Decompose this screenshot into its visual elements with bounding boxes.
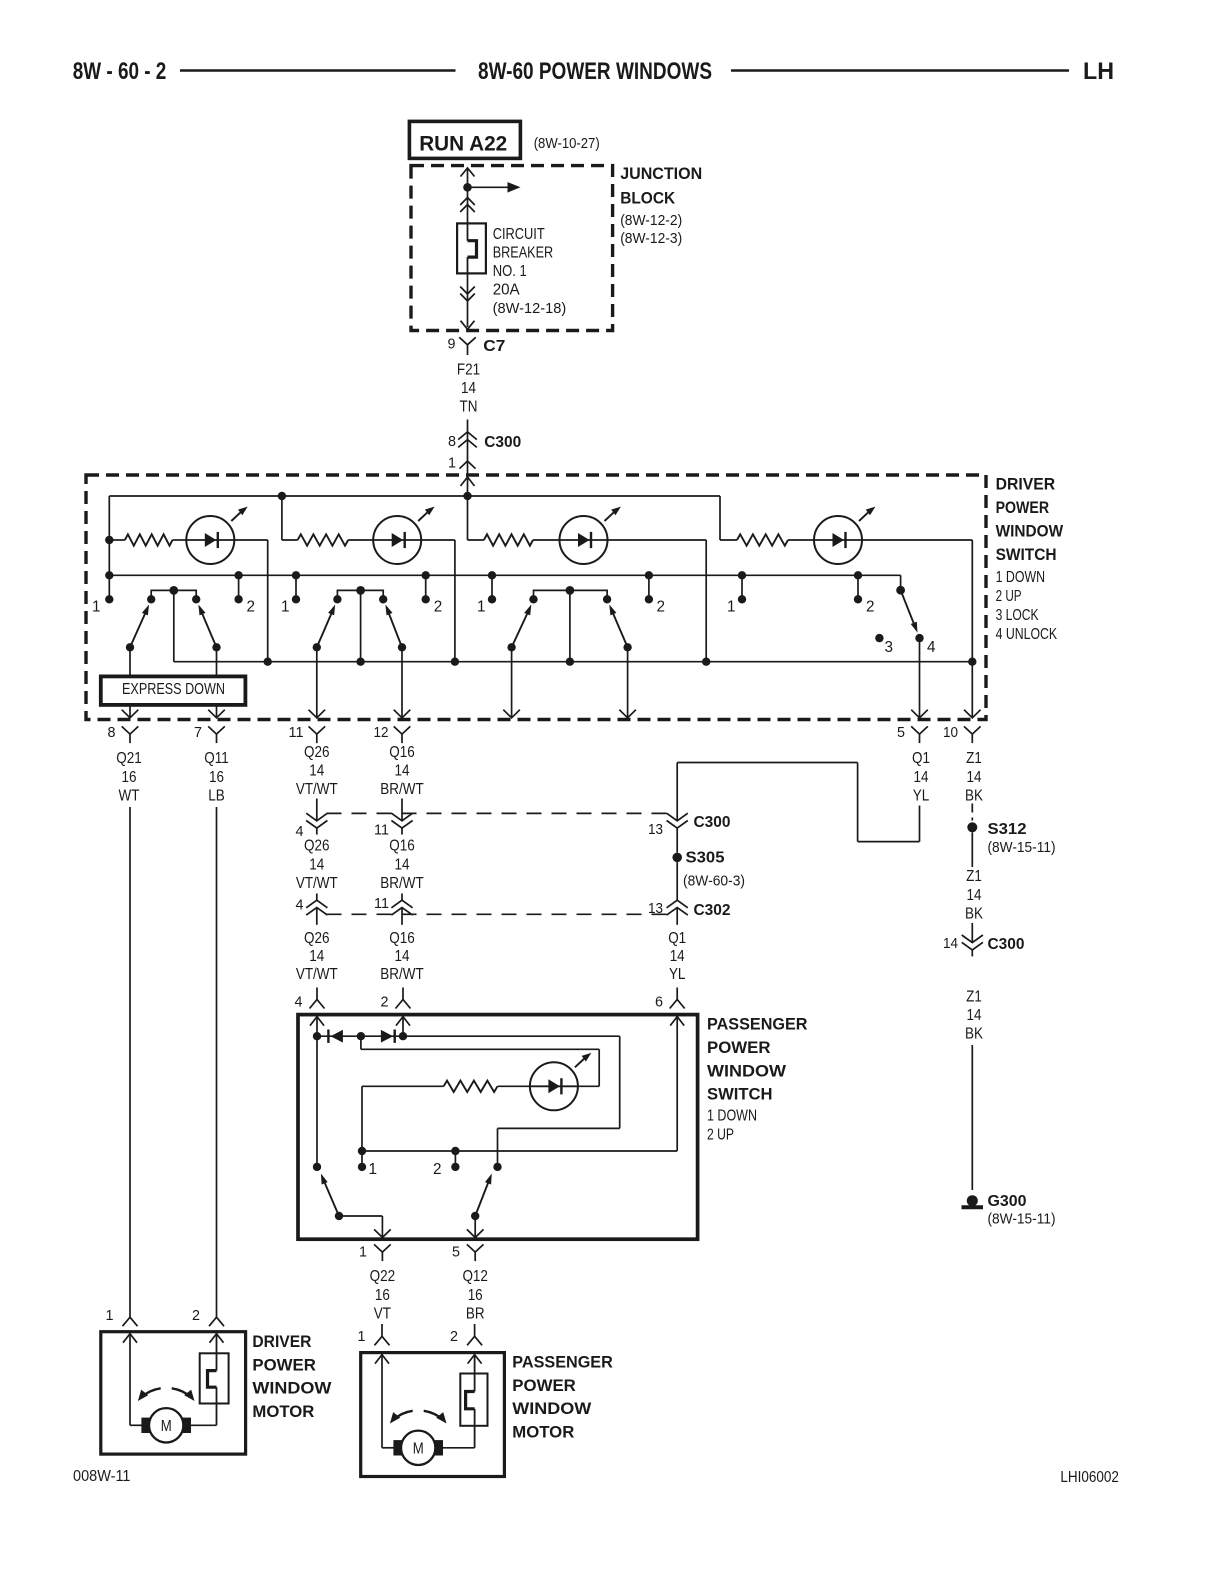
svg-text:VT/WT: VT/WT — [296, 781, 338, 798]
svg-text:1: 1 — [358, 1329, 366, 1345]
svg-text:(8W-15-11): (8W-15-11) — [988, 1212, 1056, 1228]
wire: breaker to C7 — [467, 273, 469, 327]
internal feed bus wire — [109, 495, 720, 497]
svg-text:1: 1 — [727, 599, 736, 616]
svg-text:JUNCTION: JUNCTION — [620, 164, 702, 183]
svg-text:SWITCH: SWITCH — [707, 1085, 773, 1104]
resistor for window LED 2 — [282, 539, 298, 541]
svg-text:PASSENGER: PASSENGER — [512, 1353, 613, 1372]
wire: pin 4 to down contact — [316, 1016, 318, 1167]
diode row wire — [317, 1035, 403, 1037]
svg-text:VT/WT: VT/WT — [296, 966, 338, 983]
circuit breaker no.1 outline — [457, 223, 486, 273]
lock switch pivot stub — [900, 575, 902, 590]
driver power window motor outline — [101, 1332, 246, 1454]
switch 2 common post wire — [360, 590, 362, 661]
entry arrow pin 2 — [396, 1017, 410, 1026]
passenger motor pin 2 — [474, 1324, 476, 1336]
wire: LED 3 to common bus — [608, 539, 707, 541]
passenger LED resistor — [444, 1081, 498, 1092]
svg-text:Q26: Q26 — [304, 930, 330, 947]
svg-text:14: 14 — [914, 769, 929, 786]
svg-text:8: 8 — [448, 434, 456, 450]
wire: feed drop cell 3 — [467, 496, 469, 540]
svg-text:YL: YL — [669, 966, 686, 983]
exit arrow pin 1 — [374, 1229, 391, 1237]
svg-text:M: M — [413, 1441, 424, 1458]
svg-text:WINDOW: WINDOW — [512, 1399, 592, 1418]
fuse source box RUN A22 — [409, 121, 520, 158]
svg-text:7: 7 — [194, 725, 202, 741]
rotation arrows — [141, 1388, 161, 1397]
svg-text:Q26: Q26 — [304, 744, 330, 761]
svg-text:C300: C300 — [694, 814, 731, 831]
header rule left — [180, 69, 456, 72]
splice S305 — [676, 834, 678, 852]
svg-text:14: 14 — [395, 763, 410, 780]
wire: pin1 to motor brush — [381, 1354, 383, 1448]
entry arrow motor pin 2 — [210, 1334, 224, 1343]
switch 1 left blade — [126, 643, 134, 651]
passenger switch pin 2 — [402, 988, 404, 1000]
svg-text:BREAKER: BREAKER — [493, 245, 554, 262]
entry arrow motor pin 1 — [375, 1355, 389, 1364]
lock contact 4 — [915, 634, 923, 642]
svg-text:EXPRESS DOWN: EXPRESS DOWN — [122, 681, 225, 698]
exit arrow at switch edge — [394, 710, 411, 718]
svg-text:POWER: POWER — [252, 1355, 316, 1374]
passenger switch pin 6 — [676, 988, 678, 1000]
svg-text:WT: WT — [119, 788, 140, 805]
connector pin 8 — [122, 726, 139, 734]
svg-text:C300: C300 — [484, 434, 521, 451]
exit arrow at switch edge — [964, 710, 981, 718]
connector pin 10 — [964, 726, 981, 734]
wire: cell 1 feed to contact rail — [108, 540, 110, 575]
resistor for window LED 1 — [109, 539, 125, 541]
driver power window switch dashed outline — [86, 475, 986, 720]
switch 4 terminal 2 (up contact) — [854, 571, 862, 579]
svg-text:SWITCH: SWITCH — [996, 545, 1057, 564]
svg-text:BLOCK: BLOCK — [620, 189, 676, 208]
svg-text:2: 2 — [657, 599, 666, 616]
svg-text:DRIVER: DRIVER — [252, 1332, 311, 1351]
rotation arrows — [393, 1411, 413, 1420]
svg-text:14: 14 — [395, 948, 410, 965]
connector pin 5 — [911, 726, 928, 734]
bus node — [264, 658, 272, 666]
svg-text:3: 3 — [885, 639, 894, 656]
svg-text:Q16: Q16 — [389, 744, 415, 761]
double chevron up on feed wire — [460, 198, 475, 206]
svg-text:Q21: Q21 — [116, 750, 142, 767]
svg-text:14: 14 — [967, 1007, 982, 1024]
svg-text:(8W-12-3): (8W-12-3) — [620, 231, 682, 247]
switch 3 terminal 2 (up contact) — [645, 571, 653, 579]
entry arrow into driver switch — [461, 477, 475, 486]
switch 2 left blade — [313, 643, 321, 651]
exit arrow at junction block edge — [461, 321, 475, 330]
switch 3 left blade — [507, 643, 515, 651]
svg-text:WINDOW: WINDOW — [996, 522, 1064, 541]
svg-text:BK: BK — [965, 788, 984, 805]
driver motor pin 2 — [216, 1308, 218, 1318]
svg-text:C300: C300 — [988, 936, 1025, 953]
svg-text:14: 14 — [670, 948, 685, 965]
svg-text:1: 1 — [92, 599, 101, 616]
svg-text:Q1: Q1 — [668, 930, 686, 947]
svg-text:G300: G300 — [988, 1193, 1027, 1210]
EXPRESS DOWN label box — [101, 676, 246, 705]
svg-text:Q12: Q12 — [462, 1268, 488, 1285]
svg-text:(8W-10-27): (8W-10-27) — [534, 136, 600, 152]
bus node — [451, 658, 459, 666]
svg-text:6: 6 — [655, 995, 663, 1011]
svg-text:11: 11 — [374, 823, 389, 839]
wire: Q11 to driver motor — [216, 807, 218, 1308]
svg-text:14: 14 — [943, 936, 958, 952]
switch 1 terminal 2 (up contact) — [234, 571, 242, 579]
svg-text:POWER: POWER — [707, 1038, 771, 1057]
arrow up to RUN A22 inside junction block — [461, 168, 475, 177]
exit arrow pin 5 — [467, 1229, 484, 1237]
C302 pin 13 chevron — [676, 894, 678, 901]
svg-text:1: 1 — [106, 1308, 114, 1324]
bus node — [702, 658, 710, 666]
exit arrow at switch edge — [911, 710, 928, 718]
svg-text:2: 2 — [192, 1308, 200, 1324]
svg-text:(8W-12-2): (8W-12-2) — [620, 213, 682, 229]
svg-text:1: 1 — [359, 1245, 367, 1261]
svg-text:11: 11 — [289, 725, 304, 741]
svg-text:S305: S305 — [686, 850, 725, 867]
svg-text:DRIVER: DRIVER — [996, 474, 1056, 493]
svg-text:WINDOW: WINDOW — [707, 1061, 787, 1080]
C300 pin 14 chevron — [971, 923, 973, 943]
svg-text:BK: BK — [965, 906, 984, 923]
svg-text:14: 14 — [967, 769, 982, 786]
svg-text:BR/WT: BR/WT — [380, 781, 424, 798]
entry arrow motor pin 1 — [123, 1334, 137, 1343]
node on internal feed bus — [463, 492, 471, 500]
svg-text:8: 8 — [108, 725, 116, 741]
switch 2 terminal 1 (down contact) — [292, 571, 300, 579]
svg-text:008W-11: 008W-11 — [73, 1468, 131, 1485]
driver motor M1 — [141, 1418, 150, 1433]
svg-text:4: 4 — [927, 639, 936, 656]
splice S312 stub — [971, 804, 973, 821]
svg-text:1: 1 — [369, 1161, 378, 1178]
wire: common bus to pin 10 — [971, 662, 973, 718]
passenger motor M2 — [393, 1440, 402, 1455]
double chevron down on wire — [460, 287, 475, 295]
wire: F21 to C300 — [467, 420, 469, 432]
C300 pin 4 chevron — [316, 799, 318, 821]
switch 3 common post wire — [569, 590, 571, 661]
svg-text:4: 4 — [295, 995, 303, 1011]
splice S312 — [967, 822, 977, 832]
bus node — [566, 658, 574, 666]
svg-text:Q1: Q1 — [912, 750, 930, 767]
C302 pin 11 chevron — [401, 894, 403, 901]
entry arrow pin 4 — [310, 1017, 324, 1026]
passenger LED indicator — [530, 1062, 578, 1110]
LED indicator 1 — [186, 516, 234, 564]
passenger left blade — [335, 1212, 343, 1220]
svg-text:Q22: Q22 — [370, 1268, 396, 1285]
svg-text:BR/WT: BR/WT — [380, 875, 424, 892]
switch common bus — [174, 661, 973, 663]
svg-text:5: 5 — [897, 725, 905, 741]
svg-text:16: 16 — [209, 769, 224, 786]
svg-text:2: 2 — [450, 1329, 458, 1345]
svg-text:5: 5 — [452, 1245, 460, 1261]
node diode right — [399, 1032, 407, 1040]
connector C7 pin 9 — [459, 337, 476, 345]
svg-text:12: 12 — [374, 725, 389, 741]
svg-text:9: 9 — [448, 337, 456, 353]
passenger right blade — [471, 1212, 479, 1220]
wire: Q1 jog from pin 5 to C300 pin 13 — [919, 806, 921, 842]
wire: LED 4 to common bus — [862, 539, 972, 541]
wire: feed to circuit breaker — [467, 187, 469, 223]
connector pin 1 of driver switch — [460, 461, 476, 469]
svg-text:C7: C7 — [483, 338, 505, 355]
entry arrow motor pin 2 — [468, 1355, 482, 1364]
wire: pin1 to motor brush — [129, 1333, 131, 1425]
wire: feed into switch — [467, 477, 469, 496]
wire: driver up output — [216, 647, 218, 717]
svg-text:CIRCUIT: CIRCUIT — [493, 226, 545, 243]
svg-text:BR/WT: BR/WT — [380, 966, 424, 983]
contact up — [493, 1163, 501, 1171]
switch 1 terminal 1 (down contact) — [108, 575, 110, 599]
wire+breaker: pin2 to motor — [474, 1354, 476, 1373]
svg-text:14: 14 — [309, 763, 324, 780]
svg-text:Z1: Z1 — [966, 868, 982, 885]
wire: internal output left — [511, 647, 513, 717]
passenger switch pin 4 — [316, 988, 318, 1000]
LED indicator 2 — [373, 516, 421, 564]
svg-text:PASSENGER: PASSENGER — [707, 1015, 808, 1034]
wire: LED 1 to common bus — [234, 539, 267, 541]
connector pin 12 — [394, 726, 411, 734]
switch 3 right blade — [623, 643, 631, 651]
svg-text:13: 13 — [648, 822, 663, 838]
wire: Q21 to driver motor — [129, 807, 131, 1308]
svg-text:(8W-15-11): (8W-15-11) — [988, 840, 1056, 856]
contact feed rail — [109, 574, 900, 576]
LED indicator 3 — [560, 516, 608, 564]
connector pin 5 — [467, 1244, 484, 1252]
svg-text:Q26: Q26 — [304, 838, 330, 855]
svg-text:C302: C302 — [694, 902, 731, 919]
svg-text:2 UP: 2 UP — [707, 1127, 734, 1144]
passenger motor pin 1 — [381, 1324, 383, 1336]
svg-text:M: M — [161, 1418, 172, 1435]
switch 4 terminal 1 (down contact) — [738, 571, 746, 579]
svg-text:1: 1 — [281, 599, 290, 616]
svg-text:NO. 1: NO. 1 — [493, 263, 527, 280]
C302 in-line connector dashed line — [327, 913, 668, 915]
connector pin 7 — [208, 726, 225, 734]
wire: diodes to up contact jog — [403, 1035, 620, 1037]
wire: pass. down output — [316, 647, 318, 717]
svg-text:4: 4 — [296, 898, 304, 914]
svg-text:S312: S312 — [988, 821, 1027, 838]
junction block dashed outline — [411, 166, 613, 331]
wire+breaker: pin2 to motor — [216, 1333, 218, 1353]
wire arrow to other circuits — [468, 186, 508, 188]
contact down — [313, 1163, 321, 1171]
svg-text:(8W-12-18): (8W-12-18) — [493, 301, 567, 317]
svg-text:2 UP: 2 UP — [996, 588, 1022, 605]
wire: feed drop cell 4 — [719, 496, 721, 540]
svg-text:VT: VT — [374, 1306, 392, 1323]
svg-text:14: 14 — [967, 887, 982, 904]
header rule right — [731, 69, 1069, 72]
svg-text:2: 2 — [381, 995, 389, 1011]
svg-text:4 UNLOCK: 4 UNLOCK — [996, 626, 1058, 643]
wire: left blade to pin 1 — [339, 1215, 382, 1217]
svg-text:F21: F21 — [457, 362, 480, 379]
svg-text:MOTOR: MOTOR — [252, 1402, 314, 1421]
svg-text:LB: LB — [208, 788, 225, 805]
circuit breaker no.1 element — [467, 223, 469, 240]
switch 2 common bracket — [337, 590, 383, 599]
svg-text:2: 2 — [433, 1161, 442, 1178]
exit arrow at switch edge — [122, 710, 139, 718]
switch 2 right blade — [398, 643, 406, 651]
svg-text:Q16: Q16 — [389, 930, 415, 947]
switch 3 terminal 1 (down contact) — [488, 571, 496, 579]
resistor for window LED 4 — [720, 539, 737, 541]
exit arrow at switch edge — [619, 710, 636, 718]
svg-text:1 DOWN: 1 DOWN — [996, 569, 1046, 586]
svg-text:14: 14 — [309, 857, 324, 874]
svg-text:16: 16 — [375, 1287, 390, 1304]
wire: lock contact 4 to pin 5 — [919, 638, 921, 718]
wire: driver down output — [129, 647, 131, 717]
exit arrow at switch edge — [208, 710, 225, 718]
svg-text:16: 16 — [122, 769, 137, 786]
C302 pin 4 chevron — [316, 894, 318, 901]
svg-text:20A: 20A — [493, 282, 521, 299]
wire: LED 2 to common bus — [421, 539, 455, 541]
entry arrow pin 6 — [670, 1017, 684, 1026]
svg-text:16: 16 — [468, 1287, 483, 1304]
switch 2 terminal 2 (up contact) — [422, 571, 430, 579]
wire: pin 2 to diodes — [402, 1016, 404, 1036]
diode D2 (cathode right) — [381, 1030, 393, 1043]
svg-text:VT/WT: VT/WT — [296, 875, 338, 892]
resistor for window LED 3 — [468, 539, 484, 541]
wire: resistor to supply bus — [362, 1085, 444, 1087]
switch 1 common post wire — [173, 590, 175, 661]
switch 1 right blade — [212, 643, 220, 651]
node cell1 feed-rail — [105, 571, 113, 579]
wire: mid diode node to LED — [360, 1036, 362, 1049]
svg-text:14: 14 — [309, 948, 324, 965]
svg-text:LH: LH — [1083, 58, 1114, 85]
exit arrow at switch edge — [503, 710, 520, 718]
LED indicator 4 — [814, 516, 862, 564]
terminal 2 stub — [451, 1147, 459, 1155]
svg-text:WINDOW: WINDOW — [252, 1379, 332, 1398]
svg-text:YL: YL — [913, 788, 930, 805]
svg-text:14: 14 — [395, 857, 410, 874]
svg-text:(8W-60-3): (8W-60-3) — [683, 874, 745, 890]
node diode mid — [357, 1032, 365, 1040]
wire: feed drop cell 1 — [108, 496, 110, 540]
passenger power window motor outline — [361, 1353, 505, 1477]
bus node — [968, 658, 976, 666]
svg-text:LHI06002: LHI06002 — [1060, 1469, 1119, 1486]
connector pin 1 — [374, 1244, 391, 1252]
passenger power window switch outline — [298, 1015, 698, 1240]
lock contact 3 — [875, 634, 883, 642]
svg-text:10: 10 — [943, 725, 958, 741]
svg-text:14: 14 — [461, 380, 476, 397]
svg-text:POWER: POWER — [996, 498, 1050, 517]
wire: pass. up output — [401, 647, 403, 717]
wire: feed drop cell 2 — [281, 496, 283, 540]
passenger motor breaker outline — [460, 1374, 487, 1426]
svg-text:11: 11 — [374, 896, 389, 912]
svg-text:1: 1 — [448, 456, 456, 472]
svg-text:Q11: Q11 — [204, 750, 229, 767]
driver motor pin 1 — [129, 1308, 131, 1318]
svg-text:2: 2 — [866, 599, 875, 616]
svg-text:BK: BK — [965, 1026, 984, 1043]
svg-text:RUN A22: RUN A22 — [419, 133, 507, 156]
svg-text:MOTOR: MOTOR — [512, 1423, 574, 1442]
svg-text:2: 2 — [434, 599, 443, 616]
bus node — [356, 658, 364, 666]
driver motor breaker outline — [200, 1353, 229, 1403]
svg-text:1 DOWN: 1 DOWN — [707, 1108, 757, 1125]
node diode left — [313, 1032, 321, 1040]
svg-text:8W - 60 - 2: 8W - 60 - 2 — [73, 58, 167, 85]
svg-text:POWER: POWER — [512, 1376, 576, 1395]
svg-text:TN: TN — [460, 399, 478, 416]
svg-text:8W-60 POWER WINDOWS: 8W-60 POWER WINDOWS — [478, 58, 712, 85]
svg-text:BR: BR — [466, 1306, 485, 1323]
exit arrow at switch edge — [309, 710, 326, 718]
C300 in-line connector dashed line — [327, 812, 668, 814]
wire: Z1 to ground — [971, 1045, 973, 1190]
connector pin 11 — [309, 726, 326, 734]
node feed to LED 2 — [278, 492, 286, 500]
svg-text:1: 1 — [477, 599, 486, 616]
C300 pin 11 chevron — [401, 799, 403, 821]
node cell1 resistor tap — [105, 536, 113, 544]
svg-text:2: 2 — [247, 599, 256, 616]
wire: internal output right — [627, 647, 629, 717]
terminal 1 stub — [358, 1147, 366, 1155]
node: junction block feed splice — [463, 183, 472, 192]
lock switch blade toward contact 4 — [901, 590, 915, 626]
C300 pin 13 chevron — [667, 813, 688, 821]
svg-text:Z1: Z1 — [966, 989, 982, 1006]
wire: S312 to C300 — [971, 832, 973, 867]
ground G300 — [967, 1195, 978, 1206]
wire: right blade to pin 5 — [474, 1216, 476, 1238]
svg-text:Z1: Z1 — [966, 750, 982, 767]
svg-text:3 LOCK: 3 LOCK — [996, 607, 1040, 624]
switch 3 common bracket — [534, 590, 608, 599]
connector C300 pin 8 — [458, 432, 477, 440]
